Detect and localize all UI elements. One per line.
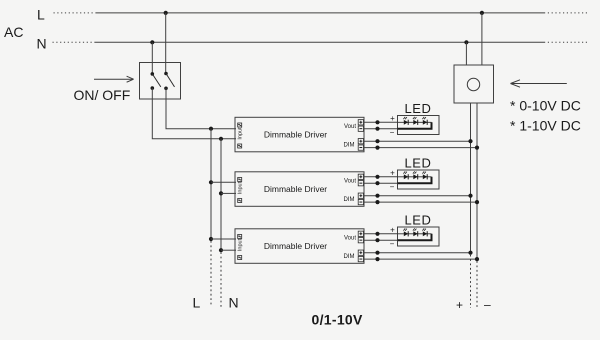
driver U1 input terminal square bottom xyxy=(238,144,242,148)
node junction N to switch xyxy=(150,40,154,44)
driver U3 label Input (rotated) xyxy=(238,238,244,251)
LED2 module box xyxy=(398,170,440,189)
wire bus A branch driver2 xyxy=(211,181,236,183)
driver U2 label Input (rotated) xyxy=(238,181,244,194)
node U1 DIM- dot xyxy=(375,146,379,150)
driver U2 label DIM xyxy=(344,197,355,203)
node U1 DIM+ bus junction xyxy=(468,139,472,143)
wire dim bus minus dashed continuation xyxy=(476,261,478,308)
LED3 thick return conductor xyxy=(398,234,432,240)
LED1 diode D2 xyxy=(413,117,418,125)
node bus B junction driver2 xyxy=(219,191,223,195)
label + (bottom) xyxy=(456,298,463,312)
svg-text:* 1-10V DC: * 1-10V DC xyxy=(510,118,581,134)
node U3 DIM+ bus junction xyxy=(468,251,472,255)
svg-text:+: + xyxy=(390,114,395,123)
label + at LED1 input xyxy=(390,114,395,123)
wire N rail dotted tail xyxy=(544,41,588,43)
wire U3 DIM+ to bus xyxy=(364,252,471,254)
label - at LED2 return xyxy=(390,183,395,192)
label - at LED1 return xyxy=(390,128,395,137)
wire N drop to switch xyxy=(151,42,153,74)
wire dim bus minus vertical xyxy=(476,103,478,259)
driver U2 input terminal square bottom xyxy=(238,199,242,203)
label N (bottom) xyxy=(229,295,239,311)
wire U3 Vout- return from LED xyxy=(364,239,398,241)
LED3 diode D1 xyxy=(403,228,408,236)
wire bus B dashed continuation xyxy=(220,252,222,307)
node U1 DIM+ dot xyxy=(375,139,379,143)
LED2 diode D3 xyxy=(422,171,427,179)
svg-text:LED: LED xyxy=(404,213,431,228)
wire dim bus plus vertical xyxy=(470,103,472,253)
driver U1 label Vout xyxy=(344,124,356,130)
node U3 DIM- dot xyxy=(375,257,379,261)
node bus A junction driver2 xyxy=(209,180,213,184)
node U1 Vout+ dot xyxy=(375,120,379,124)
driver U3 label Vout xyxy=(344,235,356,241)
svg-text:+: + xyxy=(390,225,395,234)
wire U1 Vout- return from LED xyxy=(364,128,398,130)
dimmer drop wire from N xyxy=(465,42,467,65)
label ON/ OFF xyxy=(74,87,131,103)
driver U3 terminal DIM+ xyxy=(358,250,363,255)
driver U1 input terminal square top xyxy=(238,123,242,127)
driver U3 terminal Vout- xyxy=(358,238,363,243)
node U1 Vout- dot xyxy=(375,127,379,131)
driver U1 terminal Vout+ xyxy=(358,120,363,125)
wire switch pole B out to drivers (top input) xyxy=(166,88,236,128)
label L (top left) xyxy=(37,7,45,23)
svg-text:DIM: DIM xyxy=(344,197,355,203)
svg-text:DIM: DIM xyxy=(344,254,355,260)
wire bus B branch driver3 xyxy=(221,249,236,251)
node U3 DIM- bus junction xyxy=(475,257,479,261)
dimmer U2 box xyxy=(454,65,494,103)
driver U3 terminal Vout+ xyxy=(358,231,363,236)
dimmer drop wire from L xyxy=(481,13,483,65)
svg-text:* 0-10V DC: * 0-10V DC xyxy=(510,98,581,114)
driver U1 label Input (rotated) xyxy=(238,127,244,140)
driver U1 label DIM xyxy=(344,142,355,148)
node bus A junction driver1 xyxy=(209,127,213,131)
driver U2 terminal Vout+ xyxy=(358,174,363,179)
svg-text:Input: Input xyxy=(238,181,244,194)
label L (bottom) xyxy=(193,295,201,311)
switch S1 pole B (L) xyxy=(164,72,174,90)
dimmer U2 knob circle xyxy=(467,78,479,90)
svg-text:AC: AC xyxy=(4,24,23,40)
node U3 Vout+ dot xyxy=(375,232,379,236)
label LED1 xyxy=(404,101,431,116)
wire bus A vertical xyxy=(210,129,212,239)
label - at LED3 return xyxy=(390,240,395,249)
node U3 DIM+ dot xyxy=(375,251,379,255)
wire U2 DIM- to bus xyxy=(364,201,478,203)
svg-text:−: − xyxy=(390,240,395,249)
label + at LED2 input xyxy=(390,168,395,177)
svg-text:ON/ OFF: ON/ OFF xyxy=(74,87,131,103)
wire L rail dotted lead-in xyxy=(54,12,96,14)
wire bus B branch driver2 xyxy=(221,192,236,194)
label LED2 xyxy=(404,156,431,171)
svg-text:LED: LED xyxy=(404,101,431,116)
wire U1 Vout+ to LED xyxy=(364,121,398,123)
svg-text:Input: Input xyxy=(238,238,244,251)
wire U1 DIM+ to bus xyxy=(364,140,471,142)
LED2 thick return conductor xyxy=(398,177,432,183)
svg-text:L: L xyxy=(193,295,201,311)
arrow to switch xyxy=(94,76,134,82)
svg-text:Dimmable Driver: Dimmable Driver xyxy=(264,184,327,194)
label AC xyxy=(4,24,23,40)
wire U3 Vout+ to LED xyxy=(364,233,398,235)
svg-text:–: – xyxy=(484,298,491,312)
svg-text:Vout: Vout xyxy=(344,178,356,184)
LED2 internal series wire xyxy=(398,176,432,178)
driver U3 label DIM xyxy=(344,254,355,260)
driver U1 terminal Vout- xyxy=(358,126,363,131)
LED2 diode D1 xyxy=(403,171,408,179)
svg-text:−: − xyxy=(390,128,395,137)
wire N rail dotted lead-in xyxy=(53,41,95,43)
wire U3 DIM- to bus xyxy=(364,258,478,260)
switch S1 box xyxy=(140,63,181,100)
LED1 diode D1 xyxy=(403,117,408,125)
node junction N to dimmer xyxy=(464,40,468,44)
wire U2 Vout- return from LED xyxy=(364,182,398,184)
wire switch pole A out to drivers (bottom input) xyxy=(152,88,236,139)
svg-text:+: + xyxy=(390,168,395,177)
wire U1 DIM- to bus xyxy=(364,147,478,149)
driver U3 box xyxy=(235,229,364,263)
wire bus B vertical xyxy=(220,139,222,250)
wire bus A dashed continuation xyxy=(210,241,212,307)
node U2 Vout+ dot xyxy=(375,175,379,179)
LED1 diode D3 xyxy=(422,117,427,125)
driver U2 box xyxy=(235,172,364,207)
wire L drop to switch xyxy=(165,13,167,74)
node U2 DIM- dot xyxy=(375,200,379,204)
driver U2 input terminal square top xyxy=(238,178,242,182)
node bus B junction driver1 xyxy=(219,137,223,141)
driver U2 terminal Vout- xyxy=(358,181,363,186)
label * 0-10V DC xyxy=(510,98,581,114)
wire L rail solid xyxy=(96,12,544,14)
driver U1 terminal DIM- xyxy=(358,145,363,150)
driver U3 label Dimmable Driver xyxy=(264,241,327,251)
LED3 diode D2 xyxy=(413,228,418,236)
node U2 Vout- dot xyxy=(375,181,379,185)
LED3 internal series wire xyxy=(398,233,432,235)
node U3 Vout- dot xyxy=(375,238,379,242)
svg-text:Vout: Vout xyxy=(344,235,356,241)
svg-text:LED: LED xyxy=(404,156,431,171)
label N (top left) xyxy=(37,36,47,52)
svg-text:N: N xyxy=(37,36,47,52)
wire U2 DIM+ to bus xyxy=(364,195,471,197)
node U2 DIM+ bus junction xyxy=(468,194,472,198)
driver U1 box xyxy=(235,117,364,152)
svg-text:−: − xyxy=(390,183,395,192)
driver U3 terminal DIM- xyxy=(358,256,363,261)
LED3 diode D3 xyxy=(422,228,427,236)
node U2 DIM+ dot xyxy=(375,194,379,198)
LED2 diode D2 xyxy=(413,171,418,179)
svg-text:+: + xyxy=(456,298,463,312)
wire L rail dotted tail xyxy=(544,12,588,14)
svg-text:Dimmable Driver: Dimmable Driver xyxy=(264,241,327,251)
label + at LED3 input xyxy=(390,225,395,234)
label 0/1-10V xyxy=(312,312,363,328)
driver U1 label Dimmable Driver xyxy=(264,130,327,140)
driver U2 label Vout xyxy=(344,178,356,184)
svg-text:DIM: DIM xyxy=(344,142,355,148)
node junction L to dimmer xyxy=(480,11,484,15)
driver U1 terminal DIM+ xyxy=(358,139,363,144)
svg-text:N: N xyxy=(229,295,239,311)
svg-text:Vout: Vout xyxy=(344,124,356,130)
wire N rail solid xyxy=(95,41,544,43)
node U1 DIM- bus junction xyxy=(475,146,479,150)
svg-text:0/1-10V: 0/1-10V xyxy=(312,312,363,328)
node junction L to switch xyxy=(164,11,168,15)
svg-text:Input: Input xyxy=(238,127,244,140)
svg-text:Dimmable Driver: Dimmable Driver xyxy=(264,130,327,140)
driver U3 input terminal square bottom xyxy=(238,256,242,260)
arrow to dimmer xyxy=(511,80,567,87)
label LED3 xyxy=(404,213,431,228)
switch S1 pole A (N) xyxy=(151,72,161,90)
node bus B junction driver3 xyxy=(219,248,223,252)
node bus A junction driver3 xyxy=(209,237,213,241)
label * 1-10V DC xyxy=(510,118,581,134)
LED1 module box xyxy=(398,116,440,135)
wire bus A branch driver3 xyxy=(211,238,236,240)
LED1 thick return conductor xyxy=(398,122,432,128)
node U2 DIM- bus junction xyxy=(475,200,479,204)
label - (bottom) xyxy=(484,298,491,312)
driver U2 terminal DIM- xyxy=(358,199,363,204)
driver U3 input terminal square top xyxy=(238,235,242,239)
driver U2 terminal DIM+ xyxy=(358,193,363,198)
wire U2 Vout+ to LED xyxy=(364,176,398,178)
LED3 module box xyxy=(398,227,440,246)
wire dim bus plus dashed continuation xyxy=(470,255,472,308)
driver U2 label Dimmable Driver xyxy=(264,184,327,194)
svg-text:L: L xyxy=(37,7,45,23)
LED1 internal series wire xyxy=(398,121,432,123)
